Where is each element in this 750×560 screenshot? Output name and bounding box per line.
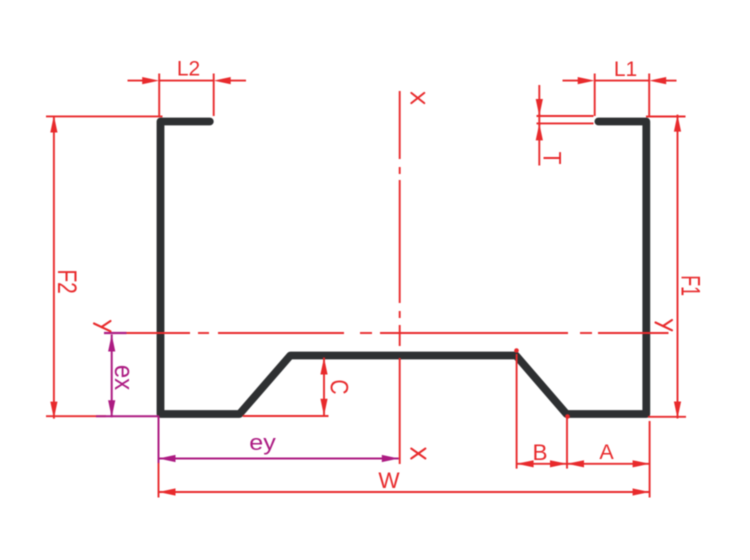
svg-text:L1: L1 xyxy=(614,58,637,81)
svg-text:L2: L2 xyxy=(177,58,200,81)
svg-text:W: W xyxy=(378,468,400,493)
svg-text:F1: F1 xyxy=(676,275,707,296)
svg-text:F2: F2 xyxy=(51,269,81,294)
svg-text:A: A xyxy=(599,440,614,464)
svg-text:B: B xyxy=(532,440,547,465)
svg-text:C: C xyxy=(325,379,353,394)
svg-text:ey: ey xyxy=(249,430,276,455)
svg-text:ex: ex xyxy=(109,365,138,391)
svg-text:T: T xyxy=(538,152,566,165)
